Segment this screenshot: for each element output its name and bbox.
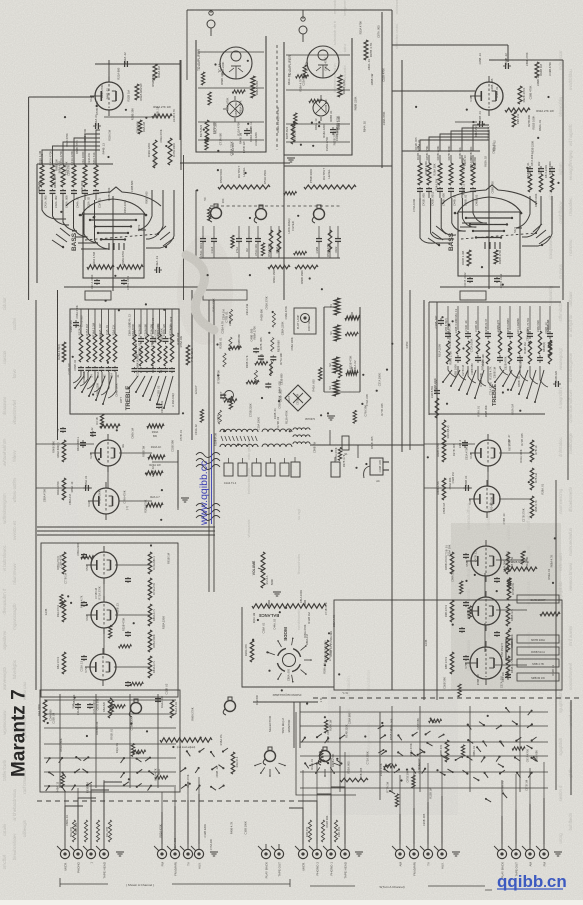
capacitor C48B	[494, 277, 500, 283]
wire dashed channel divider left	[37, 800, 313, 802]
wire bass A sub box	[85, 291, 111, 300]
wire jack leads 4	[289, 787, 345, 844]
filter capacitors row A	[199, 226, 281, 258]
extra labels center zone	[194, 296, 288, 446]
wire bank B feeds	[420, 125, 489, 151]
wire V right couplings	[487, 466, 489, 486]
bass A hook wires	[42, 200, 109, 249]
wire filter gang dashed	[210, 205, 340, 207]
wire rail x424	[423, 300, 425, 700]
capacitor C48A	[121, 279, 127, 285]
transformer second winding	[262, 429, 292, 432]
potentiometer R56A 500K	[218, 185, 270, 189]
wire jack leads 1	[65, 782, 122, 844]
capacitor bottom left treble	[60, 427, 66, 433]
selector contacts B	[309, 763, 341, 777]
resistor R72B 680 horizontal	[504, 567, 537, 571]
wire dashed channel divider right	[313, 697, 583, 699]
resistor R83A	[62, 440, 66, 462]
tube V1A	[89, 76, 123, 116]
contact bank D	[301, 734, 345, 769]
capacitor DG1A	[155, 697, 161, 703]
resistor R50B 150K	[295, 265, 318, 269]
wire connector A drop	[210, 10, 212, 13]
tube TC4A	[220, 47, 252, 79]
bass B right hooks	[516, 196, 552, 246]
resistor R47A 390K	[168, 138, 172, 165]
resistor bank lower left	[56, 552, 156, 678]
extra labels bass B zone	[412, 126, 548, 212]
resistor R60B 1.3M	[467, 250, 471, 266]
watermark underline center	[211, 434, 213, 524]
heater resistor V1	[334, 325, 340, 341]
capacitor C80B	[463, 485, 471, 491]
bass B fan network	[428, 185, 550, 246]
capacitor C93B	[330, 127, 336, 135]
bottom caption line right start	[310, 885, 355, 887]
rotary rotor selector A	[263, 747, 275, 765]
treble B columns bank2	[496, 306, 553, 364]
resistor R8B	[340, 778, 368, 782]
wire left border upper	[28, 97, 30, 300]
wire rail x437	[436, 302, 438, 700]
input jack group 5	[392, 844, 447, 876]
wire jack leads 2	[162, 794, 199, 844]
ground jacks 2	[210, 852, 218, 856]
terminal strip rects	[224, 458, 289, 476]
wire right border lower	[555, 480, 557, 790]
rotary rotor LF-A2	[254, 205, 266, 223]
heater resistor V3	[333, 380, 339, 396]
wire output box B	[284, 38, 352, 155]
bass B input resistor bank	[416, 145, 479, 206]
lower amp box left	[41, 543, 178, 697]
paper shading wash	[451, 523, 561, 691]
wire center rail x284	[283, 155, 285, 300]
contact bank A	[46, 756, 92, 792]
wire bass A bottom box	[64, 286, 200, 288]
rectifier filter coil top	[293, 428, 310, 430]
label cluster lower right gray region	[443, 544, 555, 689]
resistor R9A 1M	[138, 120, 142, 134]
ground jacks 5	[452, 852, 460, 856]
choke wiggle lower	[196, 504, 220, 521]
capacitor C91A .01	[93, 123, 101, 129]
rectifier RECT circle	[225, 391, 234, 400]
extra labels left upper	[95, 67, 176, 133]
bottom caption line right end	[428, 885, 485, 887]
tube V7B	[464, 641, 502, 685]
pilot lamp	[301, 314, 310, 323]
wire V2 grid lines	[36, 443, 94, 445]
wire bank feeds from V1A	[42, 130, 100, 164]
resistor R37B	[291, 122, 295, 144]
wire bass B sub box	[460, 291, 486, 300]
wire right stub x178	[152, 461, 178, 463]
selector drops to jacks 6	[502, 762, 544, 844]
extra labels jack zone	[65, 813, 426, 850]
power transformer hatching	[221, 436, 257, 441]
wire phono eq bottom	[253, 701, 318, 703]
selector arrows scatter	[378, 707, 538, 802]
resistor R1A	[108, 698, 112, 718]
tube V6A	[85, 596, 117, 634]
capacitor CUB	[87, 703, 93, 709]
wire B+ rail right	[381, 12, 383, 168]
treble A box	[70, 309, 179, 414]
resistor R9B 1M	[512, 112, 516, 127]
terminal rect 6	[291, 462, 300, 477]
loudness box	[40, 690, 180, 792]
capacitor C area V2B	[80, 440, 86, 448]
tube V7A	[84, 648, 116, 686]
capacitor C92A .22	[122, 61, 130, 67]
wire selector drops	[293, 702, 295, 748]
treble A fan spokes left	[74, 376, 112, 405]
wire jack leads 5	[400, 796, 442, 844]
rotary rotor selector B	[318, 747, 330, 765]
wire V5-V7 couplings	[103, 578, 105, 602]
resistor jack pullups 4	[308, 820, 337, 842]
resistor P45A 82K	[186, 345, 190, 365]
wire right rail treble	[567, 302, 569, 480]
wire V4B grid bus	[455, 121, 477, 123]
tube V2B	[89, 434, 121, 472]
bass B switch box	[454, 130, 537, 289]
treble B columns bank1	[444, 306, 491, 364]
resistor R50A 150K	[268, 265, 290, 269]
contact bank B	[121, 757, 155, 791]
extra labels power zone	[290, 337, 384, 472]
wire V2-V3 couplings	[107, 466, 109, 488]
wire main vertical rail	[391, 10, 393, 690]
bottom caption line mid	[172, 883, 290, 885]
rectifier filter coil bottom	[293, 442, 310, 444]
selector drops to jacks 5	[400, 757, 442, 844]
resistor R60A 1.5M	[87, 265, 114, 269]
resistor R98B 6.8K	[338, 75, 342, 97]
bass A input resistor bank	[38, 150, 102, 208]
wire top rail	[187, 9, 392, 11]
wire treble A right rail	[191, 290, 193, 440]
bridge rectifier RECT2	[285, 385, 311, 411]
extra labels tube col right	[442, 433, 545, 525]
resistor bank lower right	[444, 552, 515, 678]
power transformer secondary coil	[220, 444, 258, 447]
bass A right hooks	[138, 190, 174, 248]
resistor R48A 470K	[117, 265, 143, 269]
wire right selector border	[570, 700, 572, 795]
ground x185	[181, 498, 189, 502]
extra bass B bank labels	[417, 126, 478, 195]
label cluster lower left	[58, 542, 170, 694]
capacitor C80A	[83, 485, 91, 491]
wire output rail A	[180, 162, 290, 164]
choke 250mH	[506, 639, 512, 660]
extra labels selector zone	[310, 712, 539, 798]
resistor R82B 270K	[442, 440, 446, 462]
resistor R30A 680 below	[147, 424, 164, 428]
input jack group 1	[57, 844, 109, 879]
capacitor C93A	[244, 128, 250, 136]
wire bass B bottom box	[440, 286, 560, 288]
resistor R37A	[205, 120, 209, 142]
wire filter box	[196, 190, 340, 258]
AC interlock plug	[364, 458, 389, 478]
label cluster output B	[314, 116, 340, 151]
bleed-through text in gray wash	[466, 502, 471, 671]
capacitor C38A .047	[73, 320, 79, 328]
wire high-freq filter dashed	[276, 45, 278, 150]
wire V4B plate feed	[392, 90, 475, 92]
extra bass A bank labels	[38, 133, 105, 188]
resistor R20B 47K	[325, 640, 329, 662]
capacitor CUA	[75, 703, 81, 709]
selector drops to jacks 4	[303, 752, 345, 844]
resistor R82A 270K	[62, 478, 66, 500]
potentiometer R56B 300K	[304, 185, 356, 189]
wire grid bus	[104, 116, 158, 118]
bleed-through text top middle	[332, 0, 337, 92]
wire output box A	[196, 36, 266, 152]
wire V4B top rail	[489, 59, 563, 61]
label cluster output A	[212, 121, 246, 155]
wire treble B bottom	[429, 413, 545, 415]
wire V1A plate rail	[108, 60, 110, 82]
resistor R98A 6.8K	[251, 76, 255, 98]
drops to jacks 1	[65, 780, 104, 820]
rotary rotor LF-B1	[312, 205, 324, 223]
extra labels top box B	[287, 57, 341, 143]
resistor R right V3A b	[146, 471, 163, 475]
resistor R46A 120K	[153, 140, 157, 168]
resistor R6B 47K	[445, 740, 449, 762]
wire V5B-V7B couplings	[484, 573, 486, 597]
resistor R92A 680 1W	[135, 84, 139, 100]
pilot lamp box	[294, 308, 316, 334]
tube TC4B	[307, 46, 339, 78]
terminal rect 7	[331, 462, 340, 477]
wire V1A grid feed	[29, 96, 94, 98]
bass B extra columns	[526, 161, 555, 192]
resistor right col c	[530, 496, 534, 518]
extra labels loudness zone	[48, 694, 219, 793]
tube socket A	[223, 96, 243, 122]
resistor R80B	[442, 478, 446, 500]
wire V right grid lines	[424, 443, 475, 445]
wire selector frame	[296, 712, 356, 795]
rotary rotor loudness	[129, 699, 141, 717]
ground jacks 4	[355, 852, 363, 856]
treble A columns group1	[78, 309, 121, 378]
resistor R86B 4.7K horizontal	[540, 612, 560, 616]
resistor R93B 27K	[505, 108, 530, 112]
resistor loudness adjust	[160, 738, 212, 742]
resistor R4A 160K	[43, 700, 47, 722]
wire vertical x402	[401, 60, 403, 452]
hum balance pot 1	[345, 316, 360, 320]
power transformer primary coil	[220, 429, 258, 432]
wire center rails	[208, 300, 210, 592]
resistor jack pullups 1	[72, 820, 111, 842]
wire top left drop	[186, 10, 188, 80]
wire top right box corner	[392, 44, 508, 46]
resistor R49B	[548, 340, 551, 356]
capacitor C38B	[438, 318, 444, 326]
capacitor C91B .01	[477, 121, 485, 127]
top box A internal wires	[198, 52, 350, 142]
wire rail x410	[409, 290, 411, 450]
capacitor C10B 220	[553, 381, 561, 387]
wire bass A left drop	[36, 164, 38, 283]
volume pot	[261, 552, 265, 588]
drops to jacks 2	[162, 777, 199, 844]
input jack group 2	[154, 844, 204, 876]
bass B hook wires	[420, 198, 487, 243]
treble A fan spokes right	[128, 376, 173, 409]
selector zone wires	[300, 706, 548, 792]
wire bank top rail	[37, 163, 113, 165]
resistor R right V3A	[146, 503, 163, 507]
capacitor couplings lower right	[459, 553, 500, 661]
rotary rotor loudness b	[223, 697, 235, 715]
resistor R20A 47K	[250, 640, 254, 662]
resistor R48B 470K	[494, 250, 498, 264]
junction dots scatter	[47, 60, 560, 785]
rectifier filter coil mid	[293, 435, 310, 437]
ground heater	[327, 416, 335, 420]
resistor right col a	[530, 440, 534, 462]
extra labels top right	[353, 21, 386, 133]
heater resistor V4	[334, 298, 340, 315]
input jack group 4	[295, 844, 350, 879]
resistor R30B	[435, 398, 439, 418]
bottom caption right tail	[485, 889, 492, 891]
heater resistor V2	[333, 357, 339, 373]
extra labels bass A zone	[37, 129, 163, 214]
treble B fan spokes right	[494, 370, 544, 403]
connector J-A to amplifier	[207, 11, 215, 36]
label cluster selector	[326, 718, 420, 783]
bleed-through text right margin	[558, 50, 563, 844]
ground jacks 6	[554, 852, 562, 856]
potentiometer BALANCE	[252, 604, 326, 608]
extra treble A columns labels	[127, 322, 183, 376]
resistor R28A 470	[62, 342, 66, 362]
capacitor C49A .13	[154, 267, 162, 273]
extra labels top box A	[214, 62, 258, 146]
label cluster loudness	[216, 303, 288, 424]
capacitor couplings lower left	[81, 553, 131, 687]
rotary rotor LF-A1	[209, 204, 221, 222]
ground jacks 1	[116, 852, 124, 856]
mode switch contacts	[268, 638, 312, 683]
treble A hook wires	[73, 372, 116, 398]
watermark underline bottom	[497, 888, 563, 890]
scan noise overlay	[0, 0, 1, 1]
treble A columns group2	[131, 309, 175, 373]
wire heater rails	[323, 307, 325, 392]
extra labels tube col left	[43, 428, 183, 513]
bass A switch box	[79, 196, 159, 291]
treble B hook wires	[448, 366, 548, 389]
capacitor C mid	[90, 431, 96, 437]
resistor R right V2B	[148, 455, 165, 459]
input jack group 3	[258, 844, 284, 878]
mode switch wafer	[277, 648, 300, 671]
treble B fan spokes left	[442, 370, 484, 399]
capacitor C4CA	[94, 279, 100, 285]
tube V3B	[468, 480, 500, 518]
tube V3A	[87, 482, 119, 520]
hum balance pot 2	[346, 371, 358, 375]
extra labels treble A zone	[67, 305, 173, 397]
wire B+ distribution rails	[37, 526, 215, 528]
ground output filter	[287, 158, 295, 162]
resistor R93A 27K	[152, 114, 172, 118]
gray swoosh watermark	[186, 255, 214, 330]
wire jack leads 6	[502, 798, 544, 844]
capacitor C92 right	[462, 440, 468, 448]
contact bank E	[380, 731, 431, 774]
loudness network cluster box	[203, 290, 247, 300]
resistor R92B 470	[518, 86, 522, 104]
wire left border mid	[35, 300, 37, 690]
filter capacitors row B	[315, 226, 341, 258]
bass A fan network	[52, 187, 174, 248]
extra labels balance zone	[262, 590, 336, 681]
wire output rail B	[284, 165, 392, 167]
wire mode box	[242, 607, 334, 687]
input jack group 6	[494, 844, 549, 878]
tube V5B	[465, 540, 501, 582]
bleed-through text center	[296, 508, 301, 630]
wire bank B top rail	[402, 150, 480, 152]
lower amp box right	[334, 600, 562, 690]
resistor R94A 1M	[153, 64, 157, 80]
wire treble A left rail	[57, 290, 59, 440]
wire plate bus x178	[177, 450, 179, 508]
bleed-through text left margin	[2, 297, 7, 869]
capacitor C30A .019	[156, 403, 162, 409]
resistor R20B 4.7K	[442, 420, 446, 445]
selector contacts A	[254, 763, 286, 777]
resistor R94B 1M	[535, 62, 539, 78]
loudness cluster parts	[218, 309, 276, 424]
capacitor C30B 5	[434, 388, 440, 396]
bottom caption line left	[60, 883, 108, 885]
zigzag scatter texture	[60, 65, 525, 807]
resistor R31B below	[100, 414, 103, 428]
wire treble B box	[429, 301, 561, 303]
resistor hzig below box	[100, 424, 120, 428]
wire power area rails	[310, 444, 424, 446]
tube V4B	[469, 76, 503, 116]
resistor R31A	[170, 700, 174, 718]
tube V5A	[85, 546, 117, 584]
contact bank F	[463, 721, 537, 778]
tube V2A right	[469, 434, 501, 472]
ground volume	[273, 592, 281, 596]
extra labels right upper	[478, 52, 552, 131]
capacitor C4B 100	[505, 672, 511, 680]
resistor R44A 47K	[231, 752, 235, 774]
choke wiggle upper	[196, 453, 220, 470]
resistor right col b	[530, 468, 534, 490]
capacitor C92B .22	[503, 63, 511, 69]
contact bank C	[180, 748, 228, 790]
extra labels treble B zone	[433, 308, 530, 417]
